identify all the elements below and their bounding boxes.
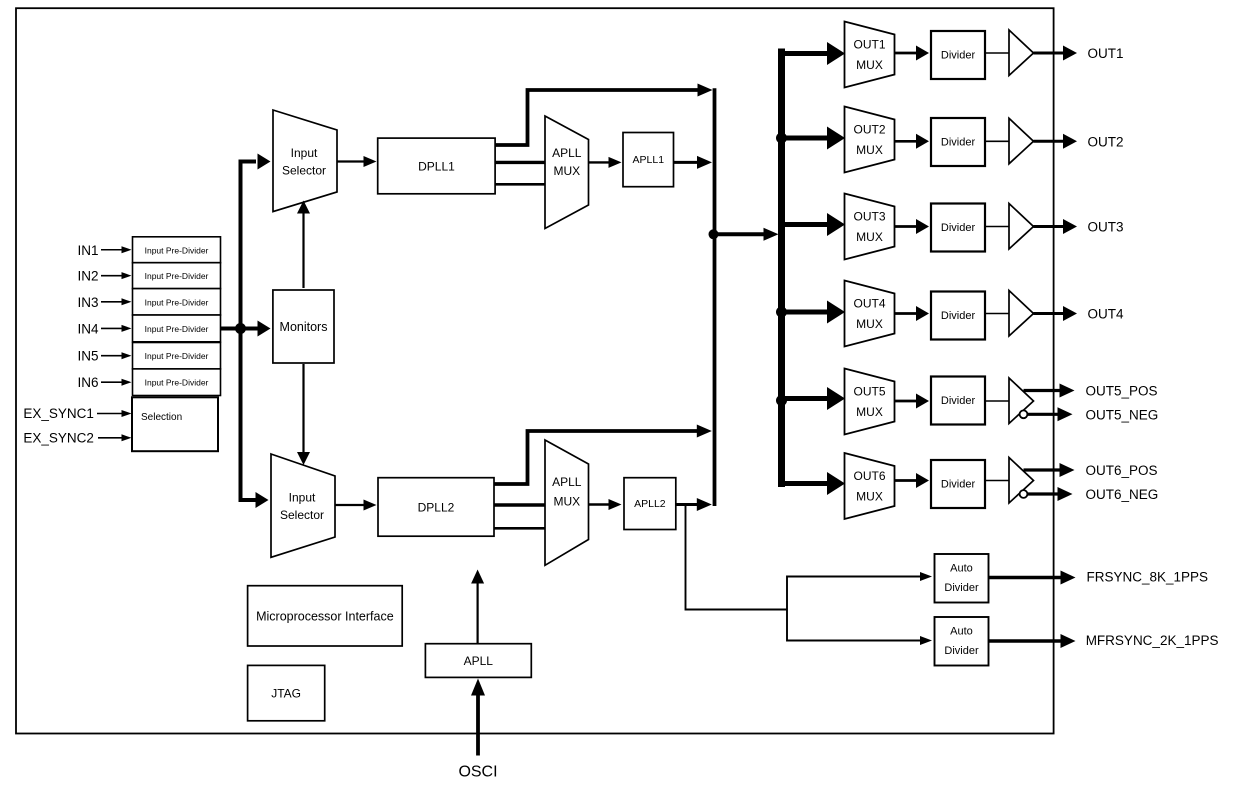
svg-text:Input: Input (291, 146, 318, 160)
wire OUT1 output (1034, 52, 1065, 55)
block Input Pre-Divider 3 (133, 289, 221, 315)
wire EX_SYNC2 input arrow (98, 437, 123, 439)
svg-text:OUT5_POS: OUT5_POS (1086, 384, 1158, 399)
wire split to Auto Divider 2 (787, 640, 921, 642)
wire APLL2 to clock node (676, 503, 698, 506)
mux OUT4 MUX (845, 281, 895, 347)
wire Monitors to Input Selector 2 (302, 364, 304, 453)
wire Input Selector 2 to DPLL2 (335, 504, 365, 506)
svg-text:Selector: Selector (280, 508, 324, 522)
mux OUT5 MUX (845, 369, 895, 435)
junction dot bus row OUT4 (776, 307, 787, 318)
svg-text:Divider: Divider (944, 582, 979, 594)
wire clock node vertical (713, 88, 717, 506)
svg-text:OUT2: OUT2 (853, 123, 885, 137)
block Auto Divider 2 (935, 617, 989, 666)
wire IN4 to Monitors with trunk junction (221, 327, 259, 331)
svg-text:MUX: MUX (553, 164, 580, 178)
block Divider OUT4 (931, 292, 985, 340)
svg-text:Selector: Selector (282, 164, 326, 178)
svg-text:OUT5: OUT5 (853, 385, 885, 399)
svg-text:OUT6_NEG: OUT6_NEG (1086, 487, 1159, 502)
wire DPLL1 top output to clock node (495, 90, 701, 145)
svg-text:APLL2: APLL2 (634, 498, 666, 510)
junction dot bus row OUT5 (776, 395, 787, 406)
svg-text:OUT5_NEG: OUT5_NEG (1086, 407, 1159, 422)
svg-text:APLL: APLL (552, 146, 582, 160)
block APLL2 (624, 478, 676, 530)
wire Input Selector 1 to DPLL1 (337, 160, 365, 162)
svg-text:OUT4: OUT4 (1088, 307, 1124, 322)
block Input Pre-Divider 6 (133, 369, 221, 396)
wire DPLL1 to APLL MUX 1 middle (495, 161, 545, 164)
svg-text:Divider: Divider (941, 222, 976, 234)
buffer OUT5 (1009, 378, 1034, 424)
buffer OUT1 (1009, 30, 1034, 76)
wire DPLL2 to APLL MUX 2 middle (494, 503, 545, 506)
svg-text:JTAG: JTAG (271, 687, 301, 701)
wire OUT6 MUX to Divider (895, 479, 918, 482)
svg-text:Divider: Divider (941, 137, 976, 149)
mux Input Selector 1 (273, 110, 337, 212)
block Divider OUT2 (931, 118, 985, 166)
svg-text:Input Pre-Divider: Input Pre-Divider (145, 351, 209, 361)
svg-text:OUT1: OUT1 (1088, 46, 1124, 61)
wire IN6 input arrow (101, 381, 123, 383)
svg-text:Input Pre-Divider: Input Pre-Divider (145, 297, 209, 307)
wire OUT2 output (1034, 140, 1065, 143)
svg-text:FRSYNC_8K_1PPS: FRSYNC_8K_1PPS (1087, 570, 1209, 585)
mux OUT1 MUX (845, 22, 895, 88)
arrow trunk to Input Selector 2 (256, 492, 269, 508)
svg-text:Microprocessor Interface: Microprocessor Interface (256, 610, 394, 624)
svg-text:IN6: IN6 (77, 375, 98, 390)
wire APLL2 branch to auto dividers (686, 506, 788, 610)
svg-text:OUT2: OUT2 (1088, 134, 1124, 149)
wire split to Auto Divider 1 (787, 576, 921, 578)
svg-text:Input Pre-Divider: Input Pre-Divider (145, 245, 209, 255)
wire DPLL1 to APLL MUX 1 bottom (495, 183, 545, 186)
svg-text:DPLL2: DPLL2 (418, 501, 455, 515)
wire OUT6_NEG output (1028, 492, 1060, 495)
wire APLL up output (477, 583, 479, 644)
svg-text:Divider: Divider (941, 479, 976, 491)
svg-text:MUX: MUX (856, 143, 883, 157)
svg-text:Divider: Divider (941, 310, 976, 322)
wire OSCI input (476, 694, 480, 756)
svg-text:MFRSYNC_2K_1PPS: MFRSYNC_2K_1PPS (1086, 633, 1219, 648)
svg-text:MUX: MUX (553, 495, 580, 509)
wire Divider to buffer OUT3 (985, 226, 1009, 228)
svg-text:APLL: APLL (552, 475, 582, 489)
svg-text:Input Pre-Divider: Input Pre-Divider (145, 378, 209, 388)
wire MFRSYNC_2K_1PPS output (989, 639, 1064, 643)
bus output distribution (778, 49, 785, 488)
svg-text:MUX: MUX (856, 58, 883, 72)
block Input Pre-Divider 4 (133, 315, 221, 342)
block Divider OUT5 (931, 377, 985, 425)
bubble OUT6 inverted output (1020, 490, 1028, 498)
wire bus to OUT3 MUX (778, 222, 827, 227)
block DPLL2 (378, 478, 494, 537)
mux APLL MUX 1 (545, 116, 589, 229)
block Auto Divider 1 (935, 554, 989, 603)
wire IN5 input arrow (101, 355, 123, 357)
block Divider OUT3 (931, 204, 985, 252)
block Input Pre-Divider 1 (133, 237, 221, 263)
wire Divider to buffer OUT2 (985, 140, 1009, 142)
wire IN1 input arrow (101, 249, 123, 251)
wire OUT5_POS output (1024, 389, 1062, 392)
svg-text:APLL: APLL (464, 654, 494, 668)
wire IN2 input arrow (101, 275, 123, 277)
wire OUT5_NEG output (1028, 413, 1060, 416)
wire bus to OUT4 MUX (778, 310, 827, 315)
wire OUT1 MUX to Divider (895, 52, 918, 55)
wire Divider to buffer OUT6 (985, 480, 1009, 482)
buffer OUT6 (1009, 458, 1034, 504)
wire OUT3 MUX to Divider (895, 225, 918, 228)
wire OUT5 MUX to Divider (895, 400, 918, 403)
svg-text:Divider: Divider (941, 395, 976, 407)
svg-text:Divider: Divider (944, 645, 979, 657)
block Divider OUT1 (931, 31, 985, 79)
wire IN4 input arrow (101, 327, 123, 329)
block Input Pre-Divider 2 (133, 263, 221, 289)
svg-text:APLL1: APLL1 (633, 154, 665, 166)
svg-text:Input Pre-Divider: Input Pre-Divider (145, 271, 209, 281)
wire OUT3 output (1034, 225, 1065, 228)
wire OUT6_POS output (1024, 468, 1062, 471)
junction dot on trunk (235, 323, 246, 334)
wire bus to OUT1 MUX (778, 51, 827, 56)
svg-text:MUX: MUX (856, 405, 883, 419)
bubble OUT5 inverted output (1020, 410, 1028, 418)
svg-text:OSCI: OSCI (458, 764, 497, 781)
wire input trunk (241, 162, 257, 501)
arrow trunk to Input Selector 1 (258, 154, 271, 170)
buffer OUT2 (1009, 118, 1034, 164)
svg-text:MUX: MUX (856, 230, 883, 244)
block Monitors (273, 290, 334, 363)
buffer OUT4 (1009, 291, 1034, 337)
mux OUT6 MUX (845, 453, 895, 519)
wire EX_SYNC1 input arrow (97, 413, 123, 415)
wire Divider to buffer OUT4 (985, 313, 1009, 315)
svg-text:Monitors: Monitors (280, 320, 328, 334)
svg-text:Divider: Divider (941, 50, 976, 62)
mux OUT2 MUX (845, 107, 895, 173)
svg-text:MUX: MUX (856, 490, 883, 504)
svg-text:OUT3: OUT3 (853, 210, 885, 224)
wire OUT2 MUX to Divider (895, 140, 918, 143)
svg-text:EX_SYNC1: EX_SYNC1 (23, 406, 94, 421)
mux OUT3 MUX (845, 194, 895, 260)
svg-text:MUX: MUX (856, 317, 883, 331)
block Microprocessor Interface (248, 586, 403, 646)
svg-text:Input: Input (289, 491, 316, 505)
wire Divider to buffer OUT5 (985, 400, 1009, 402)
wire APLL MUX 2 to APLL2 (589, 503, 611, 505)
svg-text:EX_SYNC2: EX_SYNC2 (23, 430, 94, 445)
svg-text:OUT3: OUT3 (1088, 220, 1124, 235)
svg-text:OUT4: OUT4 (853, 297, 885, 311)
svg-text:Input Pre-Divider: Input Pre-Divider (145, 324, 209, 334)
block JTAG (248, 665, 325, 720)
junction dot on clock node (709, 229, 719, 239)
wire APLL MUX 1 to APLL1 (589, 161, 611, 163)
mux Input Selector 2 (271, 454, 335, 557)
svg-text:IN5: IN5 (77, 349, 98, 364)
wire Monitors to Input Selector 1 (302, 212, 304, 288)
wire Divider to buffer OUT1 (985, 52, 1009, 54)
svg-text:Auto: Auto (950, 563, 973, 575)
svg-text:OUT6: OUT6 (853, 469, 885, 483)
wire bus to OUT5 MUX (778, 396, 827, 401)
wire OUT4 MUX to Divider (895, 312, 918, 315)
block APLL1 (623, 133, 674, 187)
wire IN3 input arrow (101, 301, 123, 303)
block DPLL1 (378, 138, 495, 194)
buffer OUT3 (1009, 204, 1034, 250)
wire FRSYNC_8K_1PPS output (989, 576, 1064, 580)
svg-text:OUT6_POS: OUT6_POS (1086, 463, 1158, 478)
wire auto divider split vertical (786, 576, 788, 642)
wire bus to OUT6 MUX (778, 481, 827, 486)
wire bus to OUT2 MUX (778, 136, 827, 141)
block Divider OUT6 (931, 460, 985, 508)
svg-text:IN1: IN1 (77, 243, 98, 258)
wire DPLL2 top output to clock node (494, 431, 699, 484)
block Input Pre-Divider 5 (133, 343, 221, 369)
svg-text:IN3: IN3 (77, 295, 98, 310)
wire OUT4 output (1034, 312, 1065, 315)
block Selection (132, 397, 218, 451)
block APLL (425, 644, 531, 678)
svg-text:IN2: IN2 (77, 269, 98, 284)
svg-text:OUT1: OUT1 (853, 38, 885, 52)
svg-text:DPLL1: DPLL1 (418, 160, 455, 174)
svg-text:Selection: Selection (141, 412, 182, 423)
wire APLL1 to clock node (674, 161, 701, 164)
mux APLL MUX 2 (545, 440, 589, 565)
svg-text:IN4: IN4 (77, 321, 99, 336)
wire DPLL2 to APLL MUX 2 bottom (494, 527, 545, 530)
svg-text:Auto: Auto (950, 626, 973, 638)
chip boundary (16, 8, 1054, 733)
wire clock node to output bus (715, 232, 767, 236)
junction dot bus row OUT2 (776, 133, 787, 144)
